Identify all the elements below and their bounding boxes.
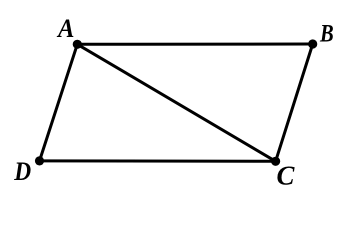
svg-text:D: D <box>13 157 31 186</box>
svg-text:B: B <box>319 21 334 48</box>
svg-text:C: C <box>277 161 296 191</box>
svg-text:A: A <box>56 14 74 43</box>
